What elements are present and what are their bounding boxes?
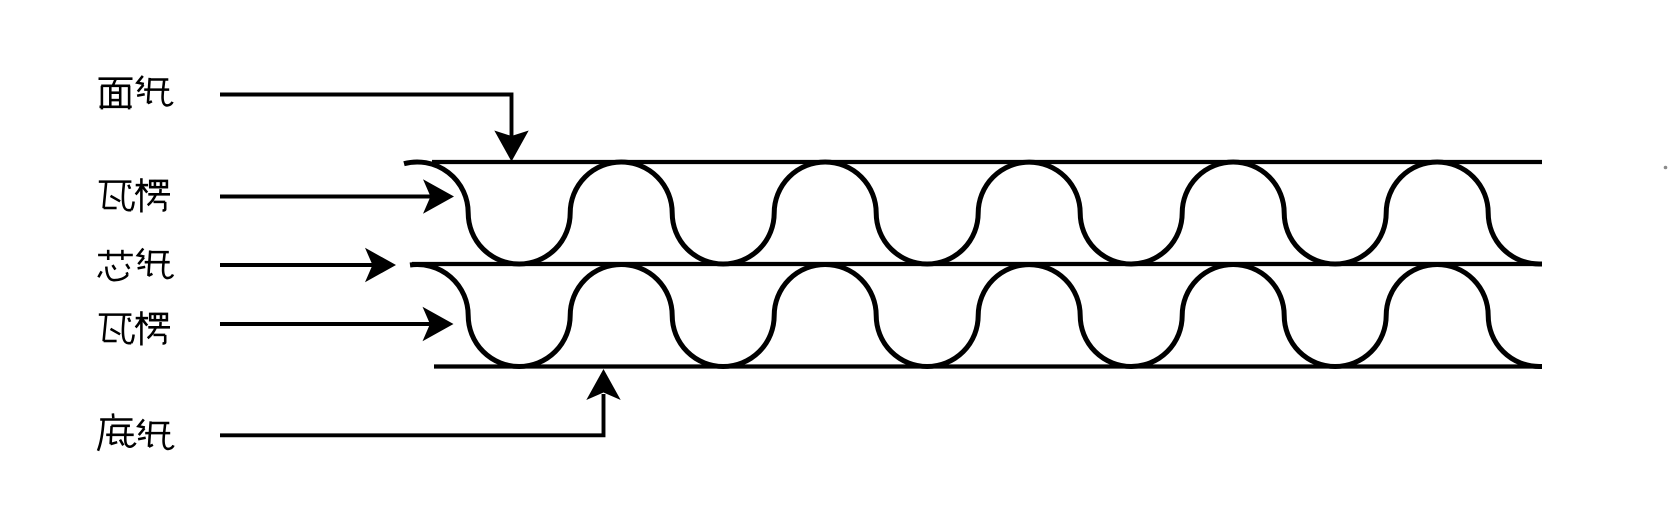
leader line 底纸 <box>220 394 604 435</box>
arrowhead down (面纸) <box>494 131 528 162</box>
arrowhead right (瓦楞 lower) <box>423 307 454 341</box>
leader line 面纸 <box>220 95 512 142</box>
leader line 瓦楞 lower <box>220 322 432 326</box>
top liner line (面纸) <box>432 160 1542 164</box>
leader line 瓦楞 upper <box>220 195 432 199</box>
bottom liner line (底纸) <box>434 364 1542 368</box>
label 瓦楞 (upper flute) <box>99 178 170 212</box>
label 瓦楞 (lower flute) <box>99 311 170 345</box>
upper corrugated flute wave <box>404 162 1542 264</box>
label 面纸 (face paper) <box>99 76 173 109</box>
arrowhead right (芯纸) <box>365 248 396 282</box>
label 底纸 (bottom liner) <box>98 413 174 450</box>
label 芯纸 (core paper) <box>98 249 173 281</box>
middle liner line (芯纸) <box>412 262 1542 266</box>
lower corrugated flute wave <box>410 264 1542 366</box>
faint artifact dot right edge <box>1664 166 1668 170</box>
arrowhead up (底纸) <box>586 369 620 400</box>
leader line 芯纸 <box>220 263 374 267</box>
arrowhead right (瓦楞 upper) <box>423 179 454 213</box>
